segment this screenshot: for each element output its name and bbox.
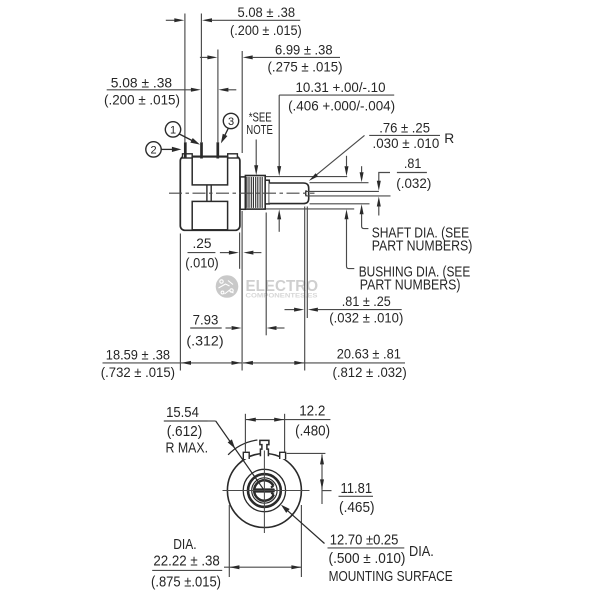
svg-text:22.22 ± .38: 22.22 ± .38 — [153, 552, 220, 569]
svg-text:R MAX.: R MAX. — [166, 439, 209, 456]
bushing diameter label — [345, 166, 349, 176]
terminal balloon 2 — [146, 142, 161, 157]
bottom view vertical centerline — [263, 451, 265, 534]
bottom view shaft circle — [252, 478, 277, 503]
svg-text:(.032 ± .010): (.032 ± .010) — [329, 311, 403, 326]
watermark electro componentes logo — [216, 275, 319, 299]
svg-text:(.812 ± .032): (.812 ± .032) — [333, 365, 407, 380]
body top crimp tab left — [183, 154, 193, 158]
extension line mounting surface (top) — [241, 51, 243, 153]
svg-text:(.200 ± .015): (.200 ± .015) — [230, 23, 302, 38]
extension line slot bottom — [307, 195, 391, 197]
dimension 22.22 body diameter — [228, 505, 230, 577]
bottom view horizontal centerline — [223, 490, 310, 492]
extension line body right (below) — [239, 233, 241, 269]
svg-text:7.93: 7.93 — [193, 312, 219, 327]
svg-text:20.63 ± .81: 20.63 ± .81 — [337, 347, 401, 362]
svg-text:DIA.: DIA. — [173, 536, 196, 553]
potentiometer body (side view) — [180, 156, 240, 230]
extension line pin 2 — [184, 14, 186, 143]
svg-text:(.875 ±.015): (.875 ±.015) — [151, 573, 221, 590]
svg-text:.25: .25 — [193, 236, 212, 251]
mounting flange — [240, 177, 245, 209]
extension line slot top — [307, 190, 379, 192]
svg-text:1: 1 — [170, 124, 176, 136]
svg-text:(.312): (.312) — [186, 334, 223, 349]
R max arc — [228, 440, 257, 455]
terminal pin 2 (left) — [184, 142, 187, 158]
extension line bushing top — [266, 176, 347, 178]
bottom view left terminal tab — [243, 452, 249, 459]
svg-text:12.2: 12.2 — [299, 403, 325, 420]
svg-text:12.70 ±0.25: 12.70 ±0.25 — [330, 531, 399, 548]
threaded bushing — [245, 176, 265, 210]
svg-text:R: R — [444, 131, 454, 146]
shaft diameter label — [360, 172, 364, 182]
svg-text:(.480): (.480) — [295, 422, 330, 439]
shaft slot end mark — [305, 190, 308, 196]
svg-text:DIA.: DIA. — [409, 543, 434, 560]
svg-text:(.612): (.612) — [167, 423, 203, 440]
svg-text:11.81: 11.81 — [341, 480, 373, 497]
extension line shaft top — [310, 182, 369, 184]
dimension 12.2 terminal span — [244, 414, 246, 453]
body top crimp tab right — [228, 154, 238, 158]
svg-text:5.08 ± .38: 5.08 ± .38 — [238, 5, 296, 20]
body inner detail lower rectangle — [192, 201, 227, 229]
extension line shaft bottom — [310, 203, 370, 205]
body inner detail upper rectangle — [192, 157, 227, 185]
centerline (side view) — [169, 192, 315, 194]
svg-text:15.54: 15.54 — [166, 404, 199, 421]
bottom view outer body circle — [227, 454, 301, 528]
body inner detail neck — [206, 185, 208, 202]
extension line bushing end (below) — [265, 213, 267, 336]
extension line bushing bottom — [266, 208, 354, 210]
bottom view right terminal tab — [280, 452, 286, 459]
extension line pin 1 — [200, 14, 202, 143]
bottom view bushing circle — [248, 474, 281, 507]
svg-text:(.275 ± .015): (.275 ± .015) — [268, 60, 343, 75]
svg-text:.81: .81 — [404, 156, 422, 171]
svg-text:6.99 ± .38: 6.99 ± .38 — [275, 42, 333, 57]
svg-text:5.08 ± .38: 5.08 ± .38 — [111, 75, 173, 90]
dimension 6.99 +/- .38 pin to mounting surface — [200, 56, 208, 58]
svg-text:PART NUMBERS): PART NUMBERS) — [360, 276, 461, 293]
dimension 11.81 center height — [287, 452, 326, 454]
terminal balloon 1 — [165, 122, 180, 137]
svg-text:.81 ± .25: .81 ± .25 — [342, 294, 391, 309]
bottom view mounting surface circle — [243, 469, 285, 511]
terminal pin 3 (right) — [216, 142, 219, 158]
svg-text:(.032): (.032) — [396, 176, 431, 191]
dimension 5.08 +/- .38 pin spacing (top row) — [166, 19, 175, 21]
terminal pin 1 (center) — [200, 142, 203, 158]
extension line body left (below) — [179, 234, 181, 371]
svg-text:MOUNTING SURFACE: MOUNTING SURFACE — [329, 568, 453, 585]
terminal balloon 3 — [223, 113, 238, 128]
shaft — [269, 183, 308, 204]
svg-text:(.406 +.000/-.004): (.406 +.000/-.004) — [288, 98, 395, 113]
bottom view slotted shaft C-ring — [254, 480, 274, 500]
extension line pin 3 — [217, 50, 219, 143]
extension line mounting surface (below) — [241, 211, 243, 371]
svg-text:.76 ± .25: .76 ± .25 — [379, 120, 430, 135]
svg-text:(.010): (.010) — [185, 256, 218, 271]
svg-text:18.59 ± .38: 18.59 ± .38 — [106, 347, 170, 362]
svg-text:(.465): (.465) — [339, 499, 375, 516]
extension line shaft tip (below) — [306, 207, 308, 319]
bottom view shaft slot — [254, 488, 275, 492]
extension line shaft slot face (below) — [304, 207, 306, 371]
svg-text:(.500 ± .010): (.500 ± .010) — [329, 550, 406, 567]
svg-text:(.200 ± .015): (.200 ± .015) — [104, 93, 180, 108]
bottom view center keying lug — [260, 440, 269, 456]
svg-text:2: 2 — [150, 144, 156, 156]
svg-text:PART NUMBERS): PART NUMBERS) — [372, 237, 473, 254]
svg-text:10.31 +.00/-.10: 10.31 +.00/-.10 — [296, 80, 386, 95]
svg-text:.030 ± .010: .030 ± .010 — [373, 136, 440, 151]
svg-text:3: 3 — [228, 116, 234, 128]
washer face at bushing end — [265, 180, 269, 204]
svg-text:NOTE: NOTE — [246, 122, 273, 137]
svg-text:(.732 ± .015): (.732 ± .015) — [101, 365, 175, 380]
